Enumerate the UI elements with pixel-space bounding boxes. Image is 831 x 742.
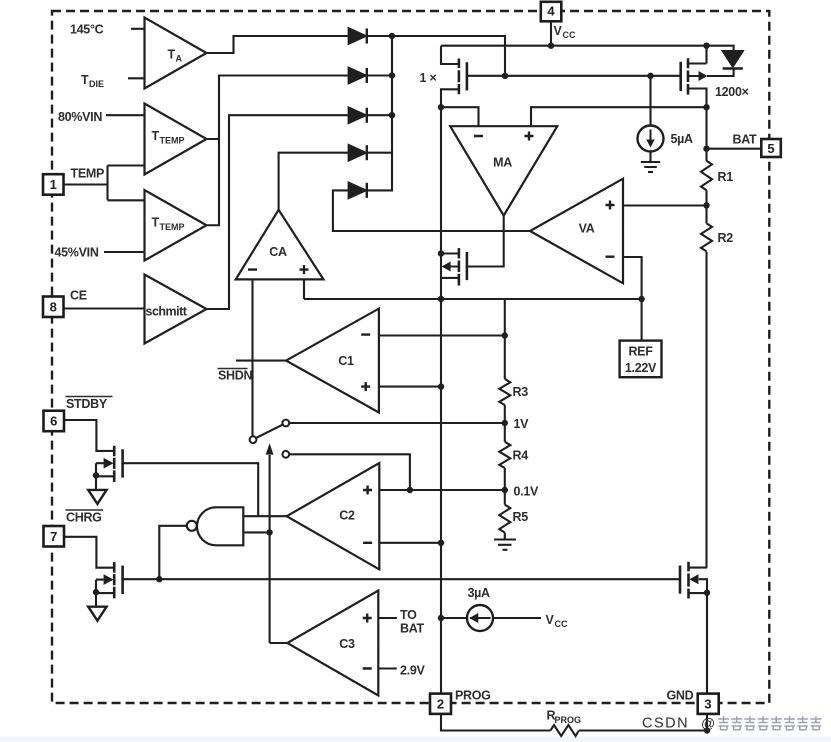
svg-text:7: 7 xyxy=(50,529,57,544)
svg-text:CE: CE xyxy=(70,289,87,303)
svg-text:CSDN: CSDN xyxy=(642,716,689,732)
svg-text:C1: C1 xyxy=(338,354,354,368)
svg-text:1 ×: 1 × xyxy=(420,71,437,85)
svg-text:TO: TO xyxy=(400,608,417,622)
svg-text:VA: VA xyxy=(579,222,595,236)
svg-text:CHRG: CHRG xyxy=(66,511,102,525)
svg-text:1.22V: 1.22V xyxy=(625,361,657,375)
svg-text:C3: C3 xyxy=(339,637,355,651)
svg-text:V: V xyxy=(554,24,563,38)
svg-text:TEMP: TEMP xyxy=(160,136,185,146)
svg-text:1: 1 xyxy=(50,177,57,192)
svg-text:R3: R3 xyxy=(513,385,529,399)
svg-text:V: V xyxy=(546,613,555,627)
svg-text:SHDN: SHDN xyxy=(218,369,252,383)
svg-text:3µA: 3µA xyxy=(468,586,491,600)
svg-text:BAT: BAT xyxy=(733,133,758,147)
svg-text:TEMP: TEMP xyxy=(160,222,185,232)
svg-text:80%VIN: 80%VIN xyxy=(58,110,102,124)
svg-text:A: A xyxy=(176,54,183,64)
svg-text:C2: C2 xyxy=(339,509,355,523)
svg-text:6: 6 xyxy=(50,414,57,429)
svg-text:1V: 1V xyxy=(514,417,530,431)
svg-text:R1: R1 xyxy=(718,170,734,184)
svg-text:2: 2 xyxy=(437,697,444,712)
svg-text:R5: R5 xyxy=(513,510,529,524)
svg-text:schmitt: schmitt xyxy=(146,305,188,319)
svg-text:CC: CC xyxy=(563,30,576,40)
svg-text:T: T xyxy=(152,129,160,143)
svg-text:3: 3 xyxy=(704,697,711,712)
svg-text:BAT: BAT xyxy=(400,622,425,636)
svg-text:PROG: PROG xyxy=(555,715,582,725)
svg-text:T: T xyxy=(152,216,160,230)
svg-text:CA: CA xyxy=(269,245,287,259)
svg-text:REF: REF xyxy=(628,345,653,359)
svg-text:PROG: PROG xyxy=(455,689,491,703)
svg-text:8: 8 xyxy=(50,300,57,315)
svg-text:5: 5 xyxy=(767,141,774,156)
svg-text:GND: GND xyxy=(667,689,694,703)
svg-text:0.1V: 0.1V xyxy=(514,485,539,499)
svg-text:STDBY: STDBY xyxy=(66,397,108,411)
svg-text:CC: CC xyxy=(555,619,568,629)
svg-text:@: @ xyxy=(701,715,715,731)
svg-text:T: T xyxy=(81,73,89,87)
svg-text:2.9V: 2.9V xyxy=(400,664,425,678)
svg-text:R2: R2 xyxy=(718,231,734,245)
svg-text:TEMP: TEMP xyxy=(71,167,105,181)
svg-text:45%VIN: 45%VIN xyxy=(55,246,99,260)
svg-text:DIE: DIE xyxy=(89,79,104,89)
svg-text:R4: R4 xyxy=(513,449,529,463)
svg-text:5µA: 5µA xyxy=(671,132,694,146)
svg-text:1200×: 1200× xyxy=(715,85,749,99)
svg-text:MA: MA xyxy=(493,156,512,170)
svg-text:T: T xyxy=(168,48,176,62)
svg-text:145°C: 145°C xyxy=(70,23,104,37)
svg-text:4: 4 xyxy=(547,4,555,19)
